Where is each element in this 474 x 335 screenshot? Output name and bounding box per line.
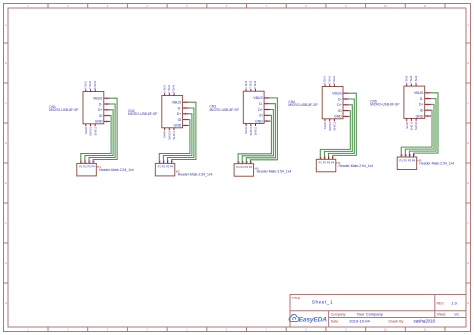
svg-text:GND: GND	[416, 114, 424, 118]
H1 pin numbers 1-4	[81, 160, 95, 164]
svg-text:SH510: SH510	[410, 121, 414, 130]
svg-text:SH510: SH510	[328, 122, 332, 131]
H4 pins 1-4	[320, 156, 332, 159]
svg-text:G: G	[467, 261, 469, 265]
CN4 pin names VBUS D- D+ ID GND	[332, 92, 342, 119]
connector CN5 MICRO-USB-8F-SP body	[404, 86, 425, 118]
svg-text:7 SH2: 7 SH2	[88, 81, 92, 89]
svg-text:GND: GND	[255, 119, 263, 123]
H3 pin names P1-P4	[236, 165, 252, 169]
svg-text:8 SH3: 8 SH3	[414, 75, 418, 83]
svg-text:6 SH1: 6 SH1	[404, 75, 408, 83]
svg-text:D+: D+	[419, 103, 424, 107]
svg-text:Header-Male-2.54_1x4: Header-Male-2.54_1x4	[99, 168, 134, 172]
svg-text:GND: GND	[95, 120, 103, 124]
svg-text:ID: ID	[338, 109, 342, 113]
wire CN2 VBUS to H2 pin 4	[172, 102, 196, 160]
H2 pins 1-4	[159, 160, 171, 163]
svg-text:Drawn By:: Drawn By:	[389, 320, 405, 324]
svg-text:6 SH1: 6 SH1	[323, 76, 327, 84]
CN1 top shield pins	[86, 89, 95, 91]
svg-text:7 SH2: 7 SH2	[327, 76, 331, 84]
H3 pins 1-4	[238, 161, 250, 164]
svg-text:7 SH2: 7 SH2	[167, 85, 171, 93]
svg-text:B: B	[5, 61, 7, 65]
CN1 top shield pin numbers and names	[84, 81, 97, 89]
wire CN5 ID to H5 pin 1	[401, 110, 432, 154]
wire CN3 ID to H3 pin 1	[238, 115, 271, 160]
CN3 bottom shield pin numbers and names	[244, 126, 257, 135]
svg-text:SH611: SH611	[93, 127, 97, 136]
svg-text:E: E	[467, 181, 469, 185]
connector CN3 MICRO-USB-8F-SP body	[243, 91, 264, 123]
connector H5 Header-Male-2.54_1x4 body	[397, 157, 417, 170]
wire CN1 ID to H1 pin 1	[81, 116, 111, 161]
wire CN5 D- to H5 pin 3	[409, 99, 436, 154]
CN2 right pin numbers 1-5	[185, 100, 187, 127]
svg-text:GND: GND	[334, 115, 342, 119]
svg-text:EasyEDA: EasyEDA	[299, 317, 328, 324]
CN3 reference and value label	[210, 105, 240, 112]
wire CN2 ID to H2 pin 1	[159, 120, 190, 161]
wire CN5 VBUS to H5 pin 4	[414, 93, 439, 154]
title block	[290, 295, 466, 328]
CN5 top shield pins	[407, 84, 416, 86]
CN1 right pins 1-5	[104, 98, 110, 121]
CN2 top shield pin numbers and names	[162, 85, 175, 93]
svg-text:MICRO-USB-8F-SP: MICRO-USB-8F-SP	[49, 108, 79, 112]
svg-text:H: H	[5, 301, 7, 305]
svg-text:8 SH3: 8 SH3	[332, 76, 336, 84]
H5 pins 1-4	[401, 154, 413, 157]
CN3 right pins 1-5	[264, 98, 270, 121]
svg-text:Header-Male-2.54_1x4: Header-Male-2.54_1x4	[257, 170, 292, 174]
svg-text:SH49: SH49	[405, 121, 409, 129]
svg-text:ID: ID	[259, 114, 263, 118]
connector CN1 MICRO-USB-8F-SP body	[83, 92, 104, 124]
CN4 top shield pins	[325, 84, 334, 86]
CN5 bottom shield pin numbers and names	[405, 121, 418, 130]
svg-text:P4: P4	[170, 165, 174, 169]
svg-text:TITLE:: TITLE:	[292, 296, 301, 300]
wire CN2 D+ to H2 pin 2	[163, 114, 192, 161]
wire CN1 D- to H1 pin 3	[89, 104, 115, 160]
H5 pin names P1-P4	[400, 158, 416, 162]
svg-text:P4: P4	[331, 161, 335, 165]
svg-text:7 SH2: 7 SH2	[409, 75, 413, 83]
CN1 bottom shield pins	[86, 124, 95, 127]
CN4 right pin numbers 1-5	[345, 91, 347, 118]
wire CN4 VBUS to H4 pin 4	[333, 93, 357, 156]
svg-text:Header-Male-2.54_1x4: Header-Male-2.54_1x4	[178, 173, 213, 177]
svg-text:H: H	[467, 301, 469, 305]
wire CN2 D- to H2 pin 3	[168, 108, 194, 160]
svg-text:VBUS: VBUS	[332, 92, 342, 96]
CN4 bottom shield pins	[325, 119, 334, 122]
wire CN4 ID to H4 pin 1	[320, 111, 350, 157]
svg-text:6 SH1: 6 SH1	[244, 80, 248, 88]
H3 pin numbers 1-4	[239, 160, 253, 164]
svg-text:SH611: SH611	[333, 122, 337, 131]
CN3 right pin numbers 1-5	[266, 96, 268, 123]
H5 pin numbers 1-4	[402, 153, 416, 157]
svg-text:Sheet_1: Sheet_1	[312, 300, 333, 305]
wire CN4 D- to H4 pin 3	[329, 99, 355, 156]
svg-text:REV:: REV:	[437, 301, 445, 305]
svg-text:G: G	[5, 261, 7, 265]
EasyEDA logo	[289, 314, 327, 323]
svg-text:SH611: SH611	[254, 126, 258, 135]
svg-text:8 SH3: 8 SH3	[253, 80, 257, 88]
svg-text:ID: ID	[99, 114, 103, 118]
svg-text:SH611: SH611	[414, 121, 418, 130]
svg-text:MICRO-USB-8F-SP: MICRO-USB-8F-SP	[288, 103, 318, 107]
svg-text:GND: GND	[174, 124, 182, 128]
svg-text:6 SH1: 6 SH1	[84, 81, 88, 89]
svg-text:MICRO-USB-8F-SP: MICRO-USB-8F-SP	[370, 103, 400, 107]
svg-text:8 SH3: 8 SH3	[93, 81, 97, 89]
svg-text:6 SH1: 6 SH1	[162, 85, 166, 93]
svg-text:SH49: SH49	[323, 122, 327, 130]
svg-text:SH49: SH49	[244, 126, 248, 134]
CN1 right pin numbers 1-5	[106, 96, 108, 123]
CN2 top shield pins	[165, 93, 174, 95]
svg-text:Date:: Date:	[331, 319, 339, 323]
svg-text:D: D	[467, 141, 469, 145]
svg-text:P4: P4	[249, 165, 253, 169]
svg-text:D+: D+	[177, 112, 182, 116]
wire CN1 VBUS to H1 pin 4	[93, 98, 117, 160]
svg-text:SH510: SH510	[89, 127, 93, 136]
CN4 top shield pin numbers and names	[323, 76, 336, 84]
CN1 bottom shield pin numbers and names	[84, 127, 97, 136]
connector H2 Header-Male-2.54_1x4 body	[155, 163, 175, 176]
svg-text:P4: P4	[412, 158, 416, 162]
svg-text:Header-Male-2.54_1x4: Header-Male-2.54_1x4	[419, 162, 454, 166]
wire CN4 D+ to H4 pin 2	[324, 105, 352, 157]
svg-text:SH510: SH510	[249, 126, 253, 135]
wire CN5 D+ to H5 pin 2	[405, 104, 434, 154]
CN5 right pins 1-5	[425, 93, 431, 116]
svg-text:1.0: 1.0	[451, 300, 457, 305]
svg-text:A: A	[467, 23, 469, 27]
H1 pins 1-4	[81, 160, 93, 163]
svg-text:VBUS: VBUS	[93, 97, 103, 101]
CN2 pin names VBUS D- D+ ID GND	[172, 101, 182, 128]
CN2 right pins 1-5	[183, 102, 189, 125]
svg-text:D+: D+	[337, 103, 342, 107]
svg-text:D: D	[5, 141, 7, 145]
svg-text:Sheet:: Sheet:	[437, 313, 447, 317]
CN1 reference and value label	[49, 105, 79, 112]
svg-text:D+: D+	[98, 108, 103, 112]
svg-text:D+: D+	[258, 108, 263, 112]
svg-text:SH49: SH49	[84, 127, 88, 135]
svg-text:MICRO-USB-8F-SP: MICRO-USB-8F-SP	[210, 108, 240, 112]
CN3 pin names VBUS D- D+ ID GND	[253, 96, 263, 123]
wire CN1 D+ to H1 pin 2	[85, 110, 113, 161]
CN5 reference and value label	[370, 99, 400, 106]
svg-text:SH510: SH510	[167, 131, 171, 140]
svg-text:P4: P4	[91, 165, 95, 169]
H2 pin names P1-P4	[158, 165, 174, 169]
CN5 pin names VBUS D- D+ ID GND	[414, 91, 424, 118]
connector H1 Header-Male-2.54_1x4 body	[77, 163, 97, 176]
H1 pin names P1-P4	[79, 165, 95, 169]
CN5 top shield pin numbers and names	[404, 75, 417, 83]
svg-text:A: A	[5, 23, 7, 27]
CN2 bottom shield pin numbers and names	[163, 131, 176, 140]
svg-text:C: C	[5, 101, 7, 105]
CN3 bottom shield pins	[246, 124, 255, 127]
svg-text:E: E	[5, 181, 7, 185]
svg-text:B: B	[467, 61, 469, 65]
svg-text:Company:: Company:	[331, 312, 347, 316]
svg-text:C: C	[467, 101, 469, 105]
connector CN2 MICRO-USB-8F-SP body	[162, 96, 183, 128]
svg-text:2019-10-04: 2019-10-04	[349, 318, 370, 323]
H2 pin numbers 1-4	[160, 160, 174, 164]
svg-text:1/1: 1/1	[454, 313, 459, 317]
svg-text:7 SH2: 7 SH2	[249, 80, 253, 88]
CN4 right pins 1-5	[343, 93, 349, 116]
svg-text:SH49: SH49	[163, 131, 167, 139]
CN3 top shield pin numbers and names	[244, 80, 257, 88]
svg-text:VBUS: VBUS	[414, 91, 424, 95]
title block texts	[292, 296, 447, 323]
CN3 top shield pins	[246, 89, 255, 91]
connector H4 Header-Male-2.54_1x4 body	[316, 159, 336, 172]
CN1 pin names VBUS D- D+ ID GND	[93, 97, 103, 124]
svg-text:ID: ID	[178, 118, 182, 122]
svg-text:VBUS: VBUS	[253, 96, 263, 100]
svg-text:ID: ID	[420, 109, 424, 113]
CN4 bottom shield pin numbers and names	[323, 122, 336, 131]
svg-text:8 SH3: 8 SH3	[172, 85, 176, 93]
CN5 right pin numbers 1-5	[427, 91, 429, 118]
svg-text:MICRO-USB-8F-SP: MICRO-USB-8F-SP	[128, 112, 158, 116]
wire CN3 VBUS to H3 pin 4	[250, 98, 277, 161]
svg-text:VBUS: VBUS	[172, 101, 182, 105]
H4 pin numbers 1-4	[321, 156, 335, 160]
connector H3 Header-Male-2.54_1x4 body	[234, 164, 254, 177]
CN2 bottom shield pins	[165, 128, 174, 131]
wire CN3 D- to H3 pin 3	[246, 104, 275, 161]
svg-text:sasha2018: sasha2018	[414, 319, 436, 324]
connector CN4 MICRO-USB-8F-SP body	[322, 87, 343, 119]
svg-text:SH611: SH611	[172, 131, 176, 140]
svg-text:Your Company: Your Company	[357, 311, 383, 316]
CN5 bottom shield pins	[407, 118, 416, 121]
wire CN3 D+ to H3 pin 2	[242, 110, 273, 161]
H4 pin names P1-P4	[319, 161, 335, 165]
CN4 reference and value label	[288, 100, 318, 107]
CN2 reference and value label	[128, 109, 158, 116]
svg-text:Header-Male-2.54_1x4: Header-Male-2.54_1x4	[339, 164, 374, 168]
